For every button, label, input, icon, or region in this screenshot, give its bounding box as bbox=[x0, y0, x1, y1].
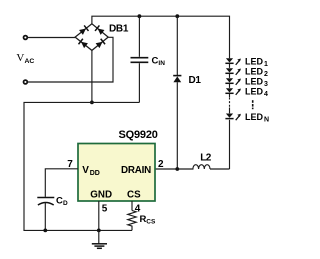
svg-text:LED: LED bbox=[245, 56, 264, 66]
svg-text:DB1: DB1 bbox=[109, 24, 129, 35]
svg-text:L2: L2 bbox=[200, 153, 212, 164]
svg-text:LED: LED bbox=[245, 66, 264, 76]
svg-text:LED: LED bbox=[245, 86, 264, 96]
svg-text:AC: AC bbox=[25, 58, 35, 65]
svg-text:DRAIN: DRAIN bbox=[121, 165, 151, 176]
svg-text:DD: DD bbox=[90, 170, 100, 177]
svg-text:2: 2 bbox=[264, 71, 268, 78]
svg-text:LED: LED bbox=[245, 112, 264, 122]
svg-text:IN: IN bbox=[158, 60, 165, 67]
svg-text:3: 3 bbox=[264, 81, 268, 88]
svg-text:7: 7 bbox=[67, 159, 73, 170]
svg-text:V: V bbox=[82, 165, 89, 176]
svg-text:5: 5 bbox=[102, 204, 108, 215]
svg-text:SQ9920: SQ9920 bbox=[119, 129, 158, 141]
svg-text:D1: D1 bbox=[189, 75, 202, 86]
svg-text:CS: CS bbox=[127, 190, 141, 201]
svg-text:4: 4 bbox=[135, 203, 141, 214]
svg-text:1: 1 bbox=[264, 61, 268, 68]
svg-text:GND: GND bbox=[90, 190, 112, 201]
svg-text:LED: LED bbox=[245, 76, 264, 86]
svg-text:2: 2 bbox=[158, 159, 164, 170]
svg-text:N: N bbox=[264, 116, 269, 123]
svg-text:D: D bbox=[63, 200, 68, 207]
svg-text:C: C bbox=[56, 195, 63, 206]
svg-text:V: V bbox=[16, 52, 24, 64]
svg-text:CS: CS bbox=[146, 218, 156, 225]
svg-text:4: 4 bbox=[264, 91, 268, 98]
